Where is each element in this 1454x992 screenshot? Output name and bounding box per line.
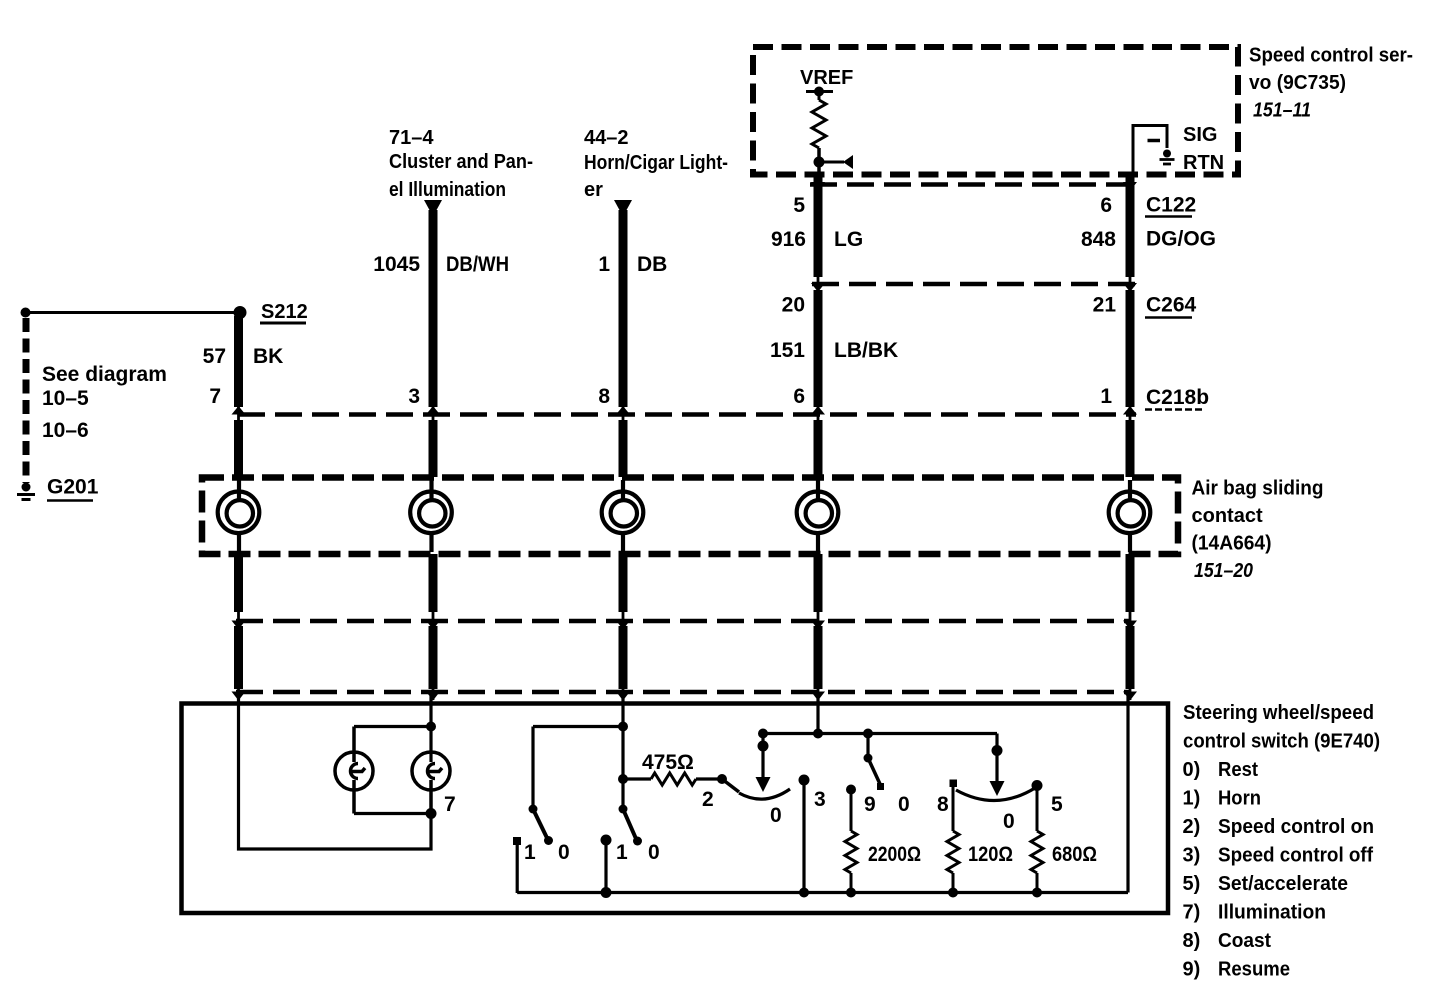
VREF terminal — [800, 67, 853, 100]
svg-text:151–20: 151–20 — [1194, 560, 1253, 582]
horn wire column 3 inside box — [533, 696, 628, 808]
coil sliding contact 5 — [1109, 480, 1151, 552]
svg-text:9: 9 — [864, 793, 876, 816]
svg-text:DB/WH: DB/WH — [446, 253, 509, 276]
svg-text:DB: DB — [637, 253, 667, 276]
set/coast switch — [937, 734, 1063, 834]
svg-text:Horn: Horn — [1218, 788, 1261, 810]
svg-text:Air bag sliding: Air bag sliding — [1192, 478, 1324, 500]
svg-text:0: 0 — [648, 841, 660, 864]
svg-text:Steering wheel/speed: Steering wheel/speed — [1183, 702, 1374, 724]
wire 1 DB column 3 — [598, 210, 667, 700]
svg-text:LG: LG — [834, 228, 863, 251]
wire 1045 DB/WH column 2 — [373, 210, 509, 700]
svg-text:71–4: 71–4 — [389, 127, 434, 149]
svg-text:Speed control ser-: Speed control ser- — [1249, 45, 1413, 67]
wiper arrow on/off — [756, 734, 771, 793]
svg-text:C264: C264 — [1146, 294, 1197, 317]
connector row lower dashed 1 — [236, 619, 1131, 624]
connector C122 — [810, 185, 1196, 217]
svg-text:C218b: C218b — [1146, 386, 1209, 409]
svg-text:Speed control off: Speed control off — [1218, 845, 1373, 867]
svg-text:8: 8 — [598, 385, 610, 408]
svg-text:2): 2) — [1183, 816, 1201, 838]
svg-text:5: 5 — [793, 194, 805, 217]
bottom bus wire — [517, 887, 1128, 898]
feed rail column 4 inside box — [758, 696, 997, 739]
svg-text:See diagram: See diagram — [42, 363, 167, 386]
resistor 2200 ohm — [845, 785, 921, 893]
splice S212 — [234, 301, 308, 323]
return wire column 5 inside box — [1126, 696, 1129, 893]
coil sliding contact 3 — [602, 480, 644, 552]
off-page connector 71-4 Cluster and Panel Illumination — [389, 127, 533, 217]
svg-text:120Ω: 120Ω — [968, 843, 1013, 866]
connector C264 — [812, 284, 1197, 318]
speed control servo box 9C735 — [753, 47, 1238, 175]
svg-text:el Illumination: el Illumination — [389, 179, 506, 201]
svg-text:3: 3 — [814, 788, 826, 811]
wiper arrow — [814, 155, 854, 169]
svg-text:Rest: Rest — [1218, 759, 1258, 781]
resistor 680 ohm — [1031, 790, 1097, 893]
svg-text:0): 0) — [1183, 759, 1201, 781]
horn switch 1 — [513, 727, 570, 894]
SIG RTN terminal — [1133, 124, 1224, 175]
wire 57 BK column 1 — [203, 316, 284, 700]
resistor VREF potentiometer — [812, 100, 826, 148]
svg-text:6: 6 — [793, 385, 805, 408]
coil sliding contact 1 — [218, 480, 260, 552]
svg-text:9): 9) — [1183, 959, 1201, 981]
svg-text:Coast: Coast — [1218, 930, 1271, 952]
ground return wire inside switch — [239, 696, 432, 849]
lamp L2 illumination — [412, 752, 450, 814]
dashed ground wire — [23, 318, 30, 483]
svg-text:848: 848 — [1081, 228, 1116, 251]
svg-text:SIG: SIG — [1183, 124, 1217, 146]
svg-text:Resume: Resume — [1218, 959, 1290, 981]
svg-text:10–6: 10–6 — [42, 419, 89, 442]
svg-text:3: 3 — [408, 385, 420, 408]
svg-text:151–11: 151–11 — [1253, 100, 1311, 122]
svg-text:2200Ω: 2200Ω — [868, 843, 921, 866]
svg-text:vo (9C735): vo (9C735) — [1249, 72, 1346, 94]
svg-text:7: 7 — [209, 385, 221, 408]
ground G201 — [17, 476, 99, 501]
svg-text:0: 0 — [558, 841, 570, 864]
svg-text:1): 1) — [1183, 788, 1201, 810]
svg-text:Set/accelerate: Set/accelerate — [1218, 873, 1348, 895]
speed control on/off switch — [702, 774, 826, 893]
svg-text:20: 20 — [782, 294, 805, 317]
svg-text:(14A664): (14A664) — [1192, 533, 1272, 555]
svg-text:680Ω: 680Ω — [1052, 843, 1097, 866]
connector row lower dashed 2 — [236, 690, 1131, 695]
servo label text — [1249, 45, 1413, 122]
svg-text:C122: C122 — [1146, 194, 1196, 217]
svg-text:S212: S212 — [261, 301, 308, 323]
resistor 475 ohm — [627, 751, 718, 785]
svg-text:475Ω: 475Ω — [642, 751, 694, 774]
steering wheel/speed control switch box 9E740 — [182, 704, 1169, 914]
svg-text:5): 5) — [1183, 873, 1201, 895]
svg-text:151: 151 — [770, 339, 805, 362]
svg-text:contact: contact — [1192, 505, 1263, 527]
svg-text:0: 0 — [898, 793, 910, 816]
svg-text:8): 8) — [1183, 930, 1201, 952]
svg-text:8: 8 — [937, 793, 949, 816]
svg-text:DG/OG: DG/OG — [1146, 228, 1216, 251]
svg-text:21: 21 — [1093, 294, 1117, 317]
svg-text:1: 1 — [598, 253, 610, 276]
svg-text:5: 5 — [1051, 793, 1063, 816]
svg-text:10–5: 10–5 — [42, 387, 89, 410]
wire 848 DG/OG column 5 — [1081, 176, 1216, 700]
air bag label text — [1192, 478, 1324, 583]
wire S212 to ground lead — [21, 308, 241, 318]
wire 916 LG / 151 LB/BK column 4 — [770, 176, 898, 700]
svg-text:1: 1 — [1100, 385, 1112, 408]
illumination feed wire column 2 inside box — [354, 696, 436, 762]
coil sliding contact 2 — [410, 480, 452, 552]
lamp L1 illumination — [335, 727, 373, 814]
svg-text:0: 0 — [1003, 810, 1015, 833]
svg-text:1: 1 — [524, 841, 536, 864]
svg-text:1: 1 — [616, 841, 628, 864]
svg-text:Cluster and Pan-: Cluster and Pan- — [389, 151, 533, 173]
svg-text:RTN: RTN — [1183, 152, 1224, 174]
svg-text:57: 57 — [203, 345, 226, 368]
svg-text:0: 0 — [770, 804, 782, 827]
svg-text:44–2: 44–2 — [584, 127, 629, 149]
svg-text:3): 3) — [1183, 845, 1201, 867]
svg-text:BK: BK — [253, 345, 283, 368]
resistor 120 ohm — [947, 787, 1013, 893]
coil sliding contact 4 — [797, 480, 839, 552]
svg-text:6: 6 — [1100, 194, 1112, 217]
svg-text:Horn/Cigar Light-: Horn/Cigar Light- — [584, 152, 728, 174]
wire flow arrows at connector crossings — [232, 182, 1138, 701]
svg-text:1045: 1045 — [373, 253, 420, 276]
ground servo internal — [1160, 150, 1175, 165]
svg-text:916: 916 — [771, 228, 806, 251]
svg-text:7: 7 — [444, 793, 456, 816]
svg-text:er: er — [584, 179, 603, 201]
horn switch 2 — [601, 805, 660, 894]
off-page connector 44-2 Horn/Cigar Lighter — [584, 127, 728, 217]
svg-text:G201: G201 — [47, 476, 99, 499]
svg-text:Speed control on: Speed control on — [1218, 816, 1374, 838]
air bag sliding contact box 14A664 — [202, 478, 1178, 555]
svg-text:7): 7) — [1183, 902, 1201, 924]
wire below resistor — [817, 148, 821, 176]
svg-text:VREF: VREF — [800, 67, 853, 89]
switch 9-0 resume — [864, 734, 910, 817]
note see diagram 10-5 10-6 — [42, 363, 167, 442]
svg-text:control switch (9E740): control switch (9E740) — [1183, 731, 1380, 753]
connector C218b — [238, 386, 1209, 415]
svg-text:LB/BK: LB/BK — [834, 339, 898, 362]
lamp bottom junction node 7 — [354, 793, 456, 819]
svg-text:Illumination: Illumination — [1218, 902, 1326, 924]
legend steering wheel switch — [1183, 702, 1381, 981]
svg-text:2: 2 — [702, 788, 714, 811]
